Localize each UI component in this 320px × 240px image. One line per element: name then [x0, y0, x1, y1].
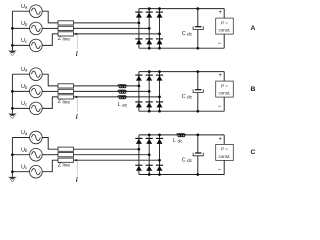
svg-text:Uc: Uc — [21, 101, 27, 107]
diode D5 (lower) — [146, 102, 153, 108]
wire phase b to line 2 — [42, 27, 58, 29]
wire bridge leg 1 — [138, 9, 140, 49]
impedance Z line phase c — [58, 32, 74, 36]
wire phase a to line 1 — [42, 74, 58, 86]
source Ua — [30, 131, 43, 144]
wire load negative lead — [223, 97, 225, 111]
junction line 2-leg 2 — [148, 153, 151, 156]
wire positive rail — [139, 71, 224, 73]
svg-text:C dc: C dc — [182, 94, 193, 100]
wire bridge leg 2 — [148, 72, 150, 112]
diode D6 (lower) — [156, 165, 163, 171]
svg-text:Ub: Ub — [21, 21, 28, 27]
junction line 1-leg 1 — [138, 22, 141, 25]
svg-text:const.: const. — [218, 91, 230, 96]
junction bus-phase c — [11, 170, 14, 173]
wire load positive lead — [223, 135, 225, 145]
current arrow i — [76, 96, 79, 112]
junction bottom rail — [148, 173, 151, 176]
inductor L dc — [176, 134, 186, 137]
diode D5 (lower) — [146, 165, 153, 171]
inductor L ac phase c — [117, 96, 127, 99]
diode D3 (upper) — [156, 12, 163, 18]
wire bridge leg 1 — [138, 72, 140, 112]
svg-text:Z line: Z line — [58, 162, 71, 168]
svg-text:−: − — [218, 104, 222, 110]
source Uc — [30, 102, 43, 115]
wire phase c to line 3 — [42, 160, 58, 172]
svg-text:Ub: Ub — [21, 84, 28, 90]
wire left bus — [11, 74, 13, 113]
svg-text:+: + — [218, 9, 222, 16]
wire stub phase c — [12, 44, 29, 46]
impedance Z line phase b — [58, 153, 74, 157]
svg-text:Uc: Uc — [21, 164, 27, 170]
load P=const — [216, 18, 234, 34]
wire line 2 to bridge — [74, 154, 150, 156]
diode D1 (upper) — [135, 75, 142, 81]
junction cap-negative rail — [196, 110, 199, 113]
svg-text:L ac: L ac — [118, 102, 128, 108]
svg-text:−: − — [218, 167, 222, 173]
junction line 2-leg 2 — [148, 27, 151, 30]
svg-text:P =: P = — [221, 20, 228, 25]
source Ua — [30, 68, 43, 81]
wire bridge leg 3 — [159, 135, 161, 175]
wire bridge leg 2 — [148, 9, 150, 49]
junction top rail — [158, 7, 161, 10]
junction bottom rail — [158, 110, 161, 113]
wire negative rail — [139, 47, 224, 49]
svg-text:C: C — [251, 149, 256, 156]
junction line 3-leg 3 — [158, 33, 161, 36]
diode D3 (upper) — [156, 138, 163, 144]
source Uc — [30, 165, 43, 178]
junction line 3-leg 3 — [158, 159, 161, 162]
svg-text:C dc: C dc — [182, 158, 193, 164]
load P=const — [216, 81, 234, 97]
svg-text:Uc: Uc — [21, 38, 27, 44]
svg-text:Z line: Z line — [58, 36, 71, 42]
svg-text:−: − — [218, 41, 222, 47]
svg-text:C dc: C dc — [182, 31, 193, 37]
impedance Z line phase c — [58, 95, 74, 99]
svg-text:const.: const. — [218, 154, 230, 159]
wire phase a to line 1 — [42, 138, 58, 150]
wire negative rail — [139, 110, 224, 112]
wire negative rail — [139, 174, 224, 176]
wire bridge leg 3 — [159, 9, 161, 49]
wire line 2 to bridge — [74, 27, 150, 29]
wire stub phase b — [12, 27, 29, 29]
svg-text:+: + — [218, 135, 222, 142]
source Uc — [30, 39, 43, 52]
junction line 1-leg 1 — [138, 148, 141, 151]
wire line 3 to bridge — [74, 33, 160, 35]
junction bottom rail — [148, 47, 151, 50]
svg-text:P =: P = — [221, 83, 228, 88]
svg-text:Ua: Ua — [21, 67, 28, 73]
capacitor C dc — [193, 72, 203, 112]
wire positive rail — [139, 134, 224, 136]
junction cap-negative rail — [196, 47, 199, 50]
wire stub phase c — [12, 171, 29, 173]
wire line 3 to bridge — [74, 159, 160, 161]
wire line 1 to bridge — [74, 22, 139, 24]
diode D4 (lower) — [135, 39, 142, 45]
svg-text:P =: P = — [221, 147, 228, 152]
junction line 2-leg 2 — [148, 90, 151, 93]
svg-text:A: A — [251, 25, 256, 32]
wire bridge leg 1 — [138, 135, 140, 175]
capacitor C dc — [193, 135, 203, 175]
inductor L ac phase b — [117, 90, 127, 93]
junction top rail — [148, 134, 151, 137]
wire left bus — [11, 11, 13, 50]
svg-text:B: B — [251, 86, 256, 93]
current arrow i — [76, 33, 79, 49]
junction bus-phase c — [11, 107, 14, 110]
wire phase c to line 3 — [42, 97, 58, 109]
wire line 1 to bridge — [74, 85, 139, 87]
junction cap-positive rail — [196, 7, 199, 10]
wire load positive lead — [223, 72, 225, 82]
junction top rail — [158, 134, 161, 137]
wire stub phase b — [12, 154, 29, 156]
junction top rail — [148, 70, 151, 73]
diode D2 (upper) — [146, 75, 153, 81]
diode D1 (upper) — [135, 12, 142, 18]
svg-text:Ua: Ua — [21, 130, 28, 136]
capacitor C dc — [193, 9, 203, 49]
svg-text:L dc: L dc — [173, 138, 183, 144]
impedance Z line phase b — [58, 26, 74, 30]
diode D3 (upper) — [156, 75, 163, 81]
svg-text:Z line: Z line — [58, 99, 71, 105]
wire positive rail — [139, 8, 224, 10]
wire bridge leg 2 — [148, 135, 150, 175]
source Ua — [30, 5, 43, 18]
diode D1 (upper) — [135, 138, 142, 144]
junction line 1-leg 1 — [138, 85, 141, 88]
wire phase b to line 2 — [42, 90, 58, 92]
diode D4 (lower) — [135, 165, 142, 171]
junction bus-phase b — [11, 27, 14, 30]
junction top rail — [148, 7, 151, 10]
wire load positive lead — [223, 9, 225, 19]
junction bottom rail — [158, 47, 161, 50]
junction bus-phase c — [11, 44, 14, 47]
ground — [8, 177, 17, 182]
wire phase a to line 1 — [42, 11, 58, 23]
wire stub phase c — [12, 107, 29, 109]
source Ub — [30, 148, 43, 161]
inductor L ac phase a — [117, 85, 127, 88]
svg-text:i: i — [76, 113, 78, 121]
impedance Z line phase a — [58, 21, 74, 25]
junction cap-negative rail — [196, 173, 199, 176]
wire stub phase a — [12, 10, 29, 12]
diode D2 (upper) — [146, 138, 153, 144]
junction bottom rail — [158, 173, 161, 176]
wire phase c to line 3 — [42, 34, 58, 46]
source Ub — [30, 22, 43, 35]
wire line 3 to bridge — [74, 96, 160, 98]
junction bottom rail — [148, 110, 151, 113]
junction cap-positive rail — [196, 70, 199, 73]
junction bus-phase b — [11, 153, 14, 156]
current arrow i — [76, 159, 79, 175]
wire stub phase a — [12, 73, 29, 75]
svg-text:Ub: Ub — [21, 147, 28, 153]
diode D5 (lower) — [146, 39, 153, 45]
svg-text:i: i — [76, 50, 78, 58]
junction bus-phase b — [11, 90, 14, 93]
wire bridge leg 3 — [159, 72, 161, 112]
svg-text:i: i — [76, 176, 78, 184]
wire stub phase a — [12, 137, 29, 139]
impedance Z line phase a — [58, 84, 74, 88]
diode D6 (lower) — [156, 102, 163, 108]
impedance Z line phase a — [58, 147, 74, 151]
junction top rail — [158, 70, 161, 73]
wire left bus — [11, 138, 13, 177]
ground — [8, 51, 17, 56]
source Ub — [30, 85, 43, 98]
wire load negative lead — [223, 160, 225, 174]
diode D4 (lower) — [135, 102, 142, 108]
impedance Z line phase c — [58, 158, 74, 162]
junction cap-positive rail — [196, 134, 199, 137]
diode D2 (upper) — [146, 12, 153, 18]
impedance Z line phase b — [58, 89, 74, 93]
svg-text:const.: const. — [218, 28, 230, 33]
wire line 2 to bridge — [74, 90, 150, 92]
wire line 1 to bridge — [74, 148, 139, 150]
wire stub phase b — [12, 90, 29, 92]
junction line 3-leg 3 — [158, 96, 161, 99]
ground — [8, 114, 17, 119]
wire phase b to line 2 — [42, 154, 58, 156]
svg-text:Ua: Ua — [21, 4, 28, 10]
svg-text:+: + — [218, 72, 222, 79]
load P=const — [216, 144, 234, 160]
diode D6 (lower) — [156, 39, 163, 45]
wire load negative lead — [223, 34, 225, 48]
